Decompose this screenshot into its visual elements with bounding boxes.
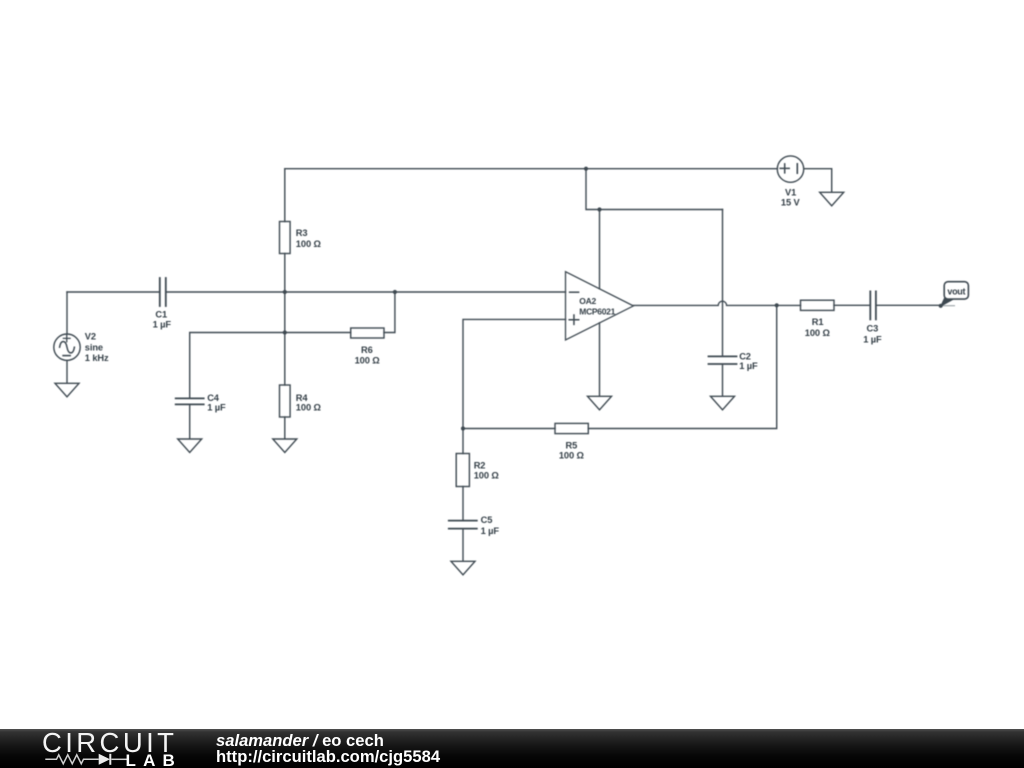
svg-text:C5: C5 [481, 515, 493, 525]
wire V1 to ground [804, 169, 832, 192]
credit line [216, 731, 384, 751]
label R5 [559, 441, 585, 461]
svg-text:100 Ω: 100 Ω [296, 239, 322, 249]
label C4 [207, 393, 226, 413]
wire V2 top [66, 292, 68, 334]
svg-text:15 V: 15 V [781, 198, 801, 208]
ground GND-V1 [820, 192, 844, 206]
wire C4 branch [190, 333, 351, 398]
svg-text:1 µF: 1 µF [481, 526, 500, 536]
wire non-inverting input [463, 319, 566, 428]
ground GND-C4 [178, 439, 202, 453]
label R6 [355, 345, 381, 365]
capacitor C2 [709, 356, 737, 364]
wire C4 to ground [189, 405, 191, 438]
resistor R5 [463, 423, 588, 433]
svg-text:1 µF: 1 µF [739, 361, 758, 371]
capacitor C1 [160, 278, 166, 306]
logo resistor-diode glyph [45, 754, 127, 765]
svg-text:V1: V1 [785, 187, 796, 197]
resistor R6 [351, 292, 395, 338]
ground GND-R4 [273, 439, 297, 453]
capacitor C3 [870, 291, 876, 319]
node feedback junction [461, 426, 465, 430]
node R3 junction [283, 290, 287, 294]
label V2 [85, 332, 109, 363]
source V2 [54, 334, 80, 360]
svg-text:LAB: LAB [126, 751, 181, 768]
svg-text:C2: C2 [739, 351, 751, 361]
svg-text:sine: sine [85, 343, 103, 353]
ground GND-C2 [711, 396, 735, 410]
svg-text:V2: V2 [85, 332, 96, 342]
svg-text:100 Ω: 100 Ω [559, 451, 585, 461]
source V1 [777, 156, 803, 182]
wire V2 to ground [66, 360, 68, 383]
wire C2 to ground [722, 365, 724, 396]
node R6 junction [393, 290, 397, 294]
node supply junction [584, 167, 588, 171]
wire R4 branch [284, 292, 286, 385]
svg-text:100 Ω: 100 Ω [474, 471, 500, 481]
svg-text:C1: C1 [155, 309, 167, 319]
label C1 [153, 309, 172, 329]
svg-text:100 Ω: 100 Ω [296, 403, 322, 413]
svg-text:1 µF: 1 µF [153, 320, 172, 330]
logo LAB mark [40, 750, 180, 768]
wire supply drop [586, 169, 723, 210]
capacitor C5 [449, 521, 477, 529]
label R2 [474, 461, 500, 481]
url line [216, 747, 440, 767]
ground GND-V2 [55, 383, 79, 397]
resistor R1 [801, 300, 870, 310]
svg-text:R1: R1 [812, 317, 824, 327]
svg-text:R4: R4 [296, 393, 309, 403]
wire vout stub [941, 305, 955, 307]
node lower junction [283, 330, 287, 334]
logo CIRCUIT word [42, 727, 177, 759]
svg-text:C4: C4 [207, 393, 220, 403]
svg-text:vout: vout [947, 286, 965, 296]
logo diode triangle [99, 754, 110, 765]
label C2 [739, 351, 758, 371]
svg-text:R6: R6 [361, 345, 373, 355]
footer bar [0, 729, 1024, 768]
node output junction [775, 303, 779, 307]
wire top supply rail [285, 168, 778, 170]
svg-text:OA2: OA2 [579, 296, 596, 306]
wire op-amp V+ pin [599, 210, 601, 289]
svg-text:1 µF: 1 µF [863, 334, 882, 344]
label C5 [481, 515, 500, 536]
label R1 [805, 317, 831, 338]
svg-text:C3: C3 [866, 323, 878, 333]
svg-text:1 kHz: 1 kHz [85, 353, 109, 363]
label C3 [863, 323, 882, 344]
ground GND-C5 [451, 561, 475, 575]
wire C3 to vout [877, 304, 941, 306]
resistor R3 [280, 169, 291, 292]
resistor R2 [456, 429, 469, 520]
label R4 [296, 393, 322, 413]
wire input rail [67, 291, 159, 293]
label OA2 [579, 296, 615, 317]
resistor R4 [280, 385, 291, 439]
svg-text:R3: R3 [296, 228, 308, 238]
svg-text:R2: R2 [474, 461, 486, 471]
wire C2 branch [722, 210, 724, 356]
wire op-amp output with hop [633, 301, 800, 305]
capacitor C4 [176, 398, 204, 404]
svg-text:100 Ω: 100 Ω [355, 355, 381, 365]
label V1 [781, 187, 801, 207]
svg-text:100 Ω: 100 Ω [805, 328, 831, 338]
svg-text:1 µF: 1 µF [207, 403, 226, 413]
wire feedback drop [588, 305, 776, 428]
flag vout [939, 282, 969, 308]
op-amp OA2 [566, 272, 634, 340]
ground GND-opamp [588, 396, 612, 410]
svg-text:R5: R5 [566, 441, 578, 451]
wire inverting input rail [167, 291, 566, 293]
wire op-amp V- pin [599, 323, 601, 396]
svg-text:MCP6021: MCP6021 [579, 307, 615, 317]
node opamp supply tap [597, 207, 601, 211]
wire C5 to ground [462, 530, 464, 562]
label R3 [296, 228, 322, 249]
